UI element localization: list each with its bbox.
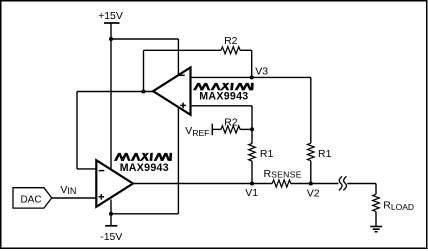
- svg-text:MAX9943: MAX9943: [199, 90, 248, 102]
- svg-text:MAX9943: MAX9943: [120, 162, 169, 174]
- svg-text:-15V: -15V: [100, 231, 122, 243]
- svg-text:R1: R1: [318, 148, 332, 160]
- svg-text:+15V: +15V: [98, 10, 123, 22]
- svg-text:R2: R2: [224, 116, 238, 128]
- svg-text:RLOAD: RLOAD: [383, 200, 414, 212]
- svg-text:VREF: VREF: [185, 125, 209, 138]
- svg-text:V2: V2: [307, 188, 320, 200]
- svg-text:DAC: DAC: [20, 194, 41, 205]
- svg-text:V3: V3: [255, 65, 268, 77]
- svg-text:R2: R2: [224, 35, 238, 47]
- svg-text:VIN: VIN: [60, 184, 76, 196]
- svg-text:V1: V1: [245, 187, 258, 199]
- svg-text:R1: R1: [260, 148, 274, 160]
- svg-text:RSENSE: RSENSE: [264, 168, 302, 180]
